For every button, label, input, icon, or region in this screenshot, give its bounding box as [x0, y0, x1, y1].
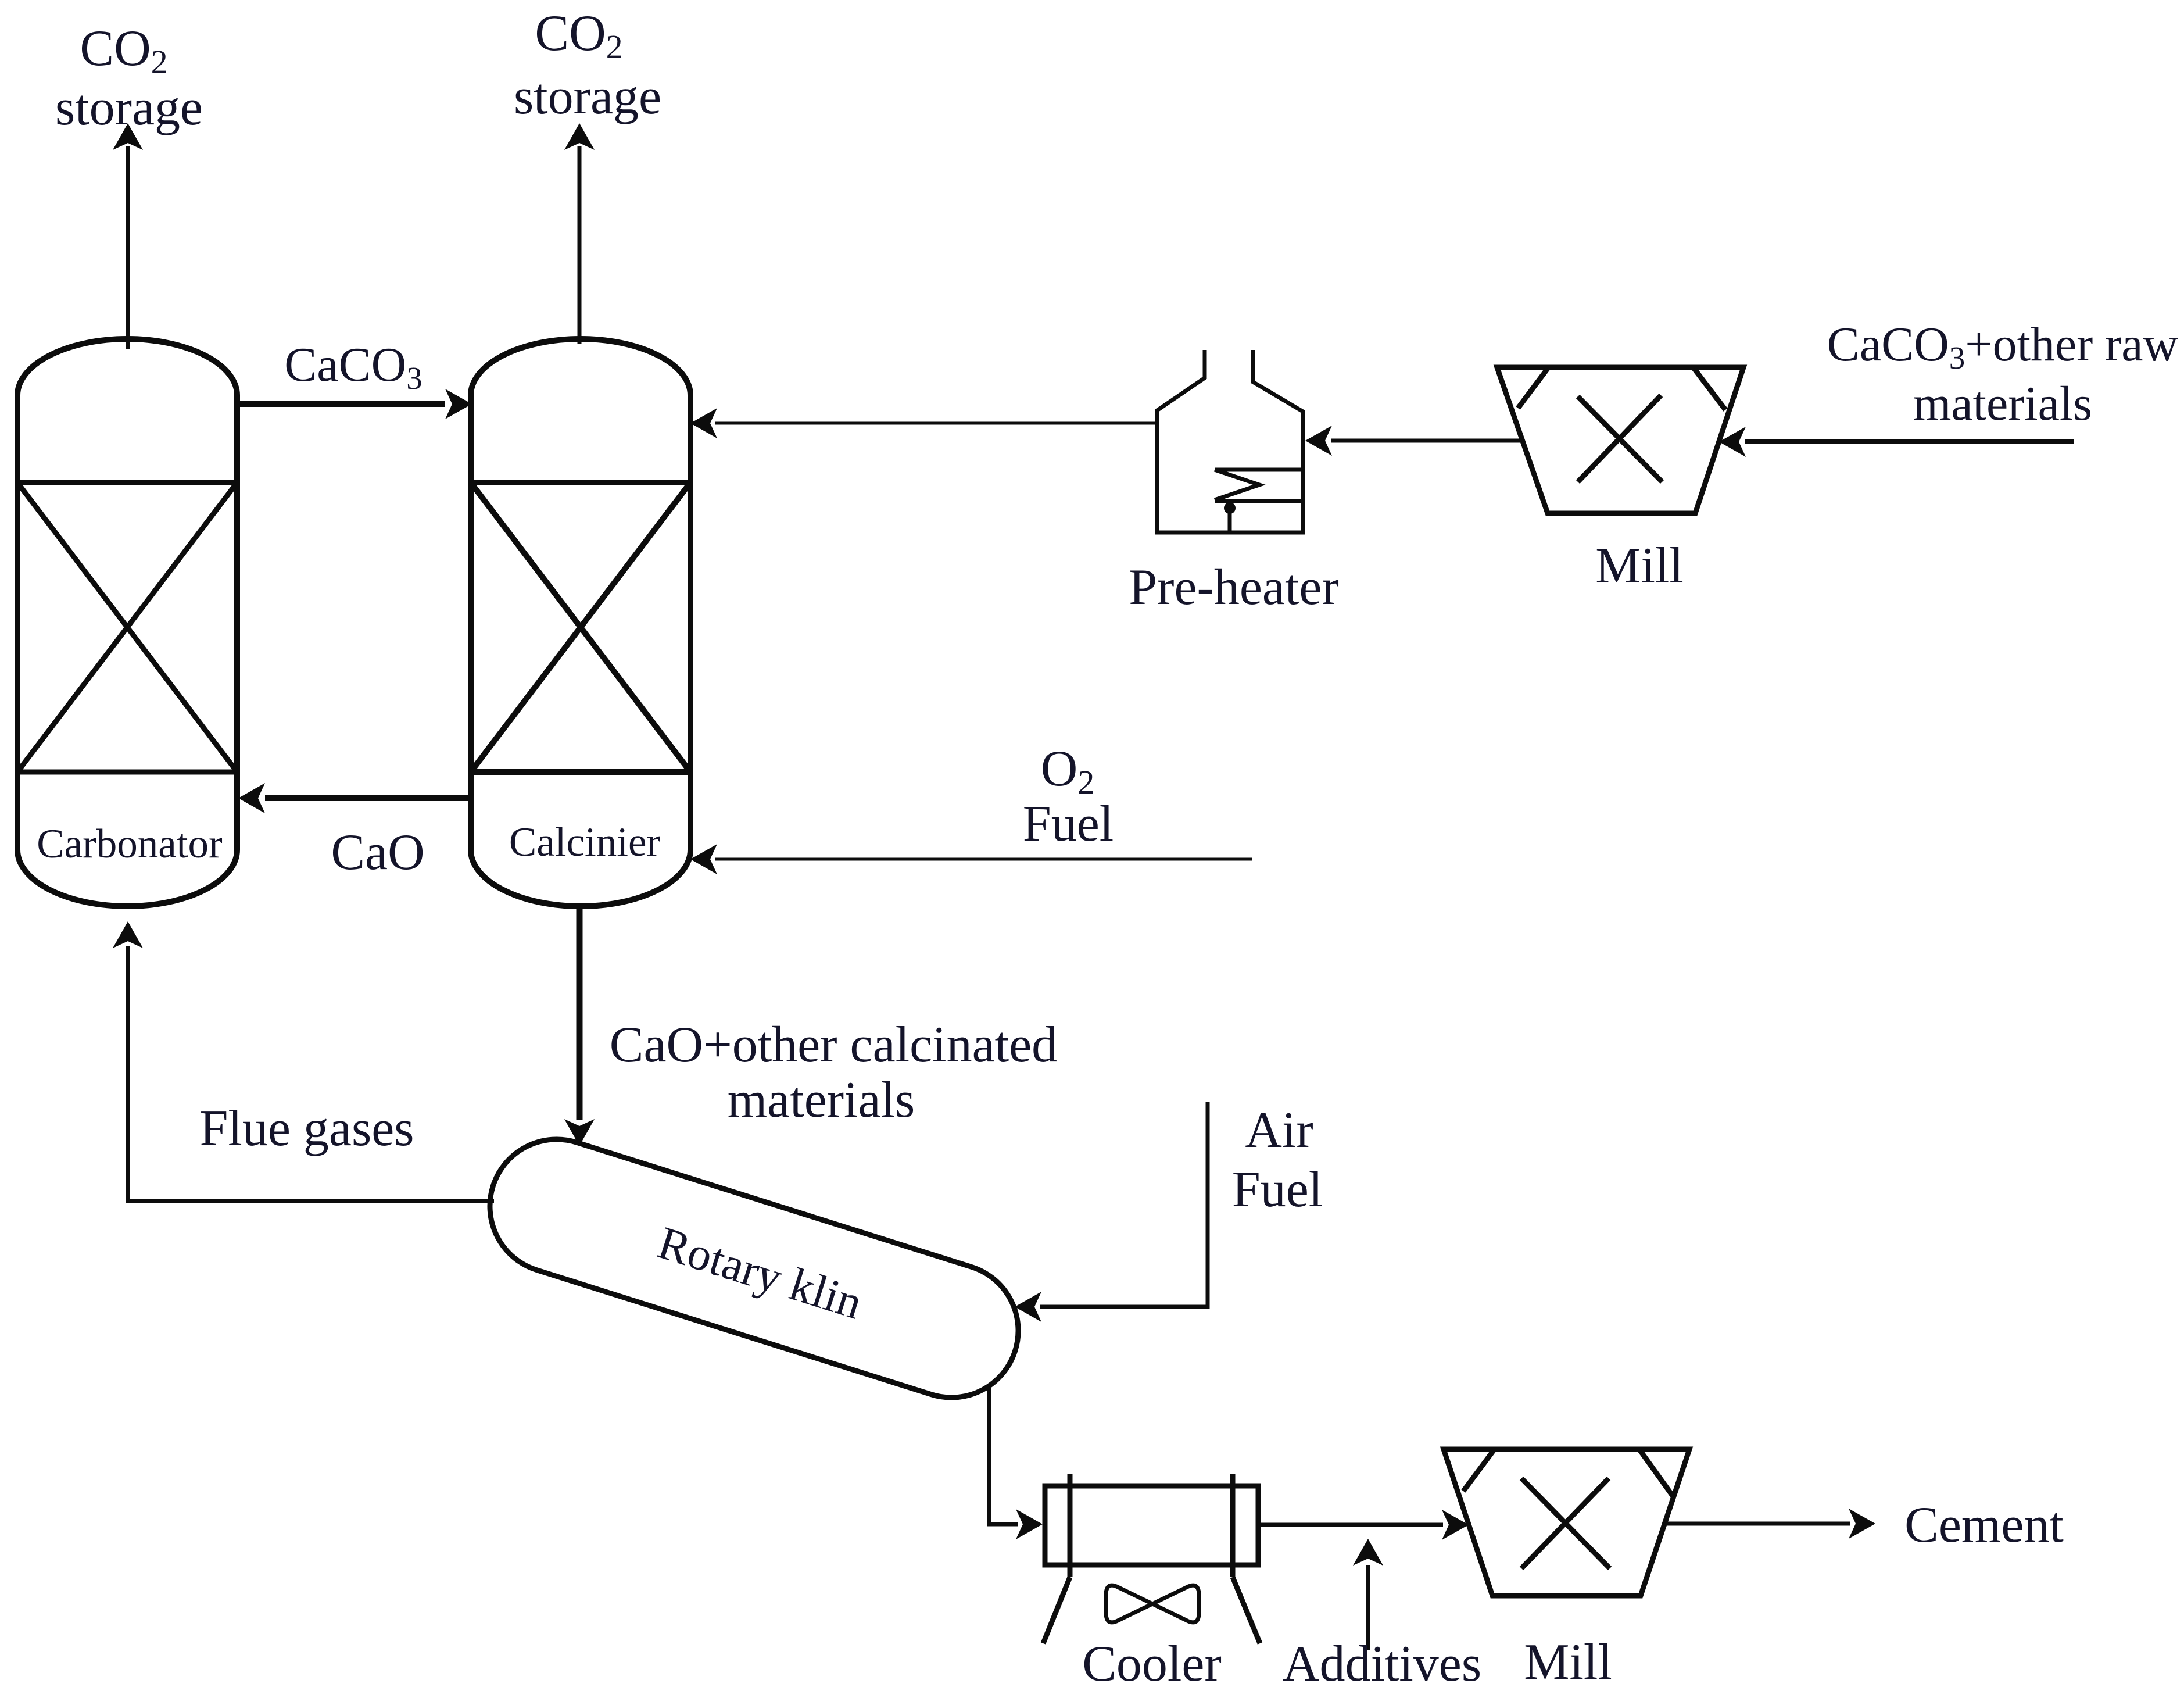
wire Flue gases (kiln to Carbonator): [113, 921, 494, 1201]
svg-text:Air: Air: [1245, 1102, 1313, 1159]
mill (bottom) X: [1521, 1478, 1610, 1568]
pre-heater heat exchanger coil: [1215, 470, 1303, 532]
label CaO+other calcinated materials: [610, 1017, 1057, 1128]
rotary kiln body: [473, 1123, 1036, 1415]
mill (bottom) trapezoid: [1444, 1449, 1689, 1596]
mill (top) trapezoid: [1497, 367, 1743, 513]
label CaCO3: [284, 338, 423, 396]
label Flue gases: [199, 1100, 414, 1157]
wire raw materials to Mill: [1719, 427, 2074, 457]
svg-text:Pre-heater: Pre-heater: [1129, 559, 1339, 616]
pre-heater body: [1157, 350, 1303, 532]
svg-text:Cooler: Cooler: [1082, 1636, 1222, 1687]
svg-text:CaO+other calcinated: CaO+other calcinated: [610, 1017, 1057, 1073]
svg-text:CaO: CaO: [331, 824, 424, 881]
label CO2 storage (right): [514, 5, 661, 125]
cooler shell: [1045, 1486, 1258, 1565]
wire Air Fuel to kiln: [1015, 1102, 1208, 1322]
label Pre-heater: [1129, 559, 1339, 616]
cooler tube sheets: [1070, 1474, 1233, 1577]
svg-text:Rotary klin: Rotary klin: [652, 1217, 868, 1329]
wire Additives into line: [1353, 1539, 1383, 1650]
svg-text:Fuel: Fuel: [1232, 1161, 1323, 1218]
svg-text:materials: materials: [728, 1072, 915, 1128]
svg-text:Flue gases: Flue gases: [199, 1100, 414, 1157]
label Mill (top): [1595, 538, 1684, 594]
label Fuel (O2 Fuel): [1023, 796, 1114, 852]
wire Cooler to Mill (bottom): [1258, 1510, 1469, 1540]
svg-text:storage: storage: [55, 80, 203, 136]
mill (top) corner rollers: [1518, 369, 1725, 410]
svg-text:CaCO3: CaCO3: [284, 338, 423, 396]
wire Pre-heater to Calcinier: [690, 408, 1157, 438]
mill (bottom) corner rollers: [1463, 1450, 1673, 1496]
wire CO2 storage from Carbonator: [113, 123, 143, 349]
label Fuel (Air Fuel): [1232, 1161, 1323, 1218]
label Additives: [1283, 1636, 1481, 1687]
label Carbonator: [37, 821, 223, 867]
svg-text:CO2: CO2: [80, 20, 167, 81]
wire O2 Fuel to Calcinier: [690, 844, 1252, 874]
wire Mill to Pre-heater: [1305, 426, 1523, 456]
svg-text:O2: O2: [1041, 741, 1095, 801]
svg-text:Carbonator: Carbonator: [37, 821, 223, 867]
wire Cement output: [1664, 1509, 1875, 1539]
cooler legs: [1043, 1577, 1260, 1643]
wire kiln to Cooler: [989, 1384, 1043, 1539]
label CaO: [331, 824, 424, 881]
svg-text:Additives: Additives: [1283, 1636, 1481, 1687]
wire CaCO3 Carbonator to Calcinier: [238, 389, 472, 419]
svg-text:Mill: Mill: [1524, 1634, 1612, 1687]
label Cement: [1904, 1497, 2064, 1553]
svg-text:Fuel: Fuel: [1023, 796, 1114, 852]
label Cooler: [1082, 1636, 1222, 1687]
packing section Calcinier (X crossing): [471, 482, 690, 772]
svg-text:Calcinier: Calcinier: [509, 820, 661, 865]
vessel Calcinier: [471, 339, 690, 906]
label O2: [1041, 741, 1095, 801]
svg-text:CaCO3+other raw: CaCO3+other raw: [1827, 317, 2179, 376]
svg-text:CO2: CO2: [535, 5, 622, 66]
wire Calcinier to Rotary klin (CaO + other calcinated materials): [564, 908, 595, 1146]
label Calcinier: [509, 820, 661, 865]
wire CO2 storage from Calcinier: [564, 123, 595, 344]
svg-text:Cement: Cement: [1904, 1497, 2064, 1553]
label CaCO3+other raw materials: [1827, 317, 2179, 431]
cooler fan: [1106, 1585, 1199, 1622]
label Mill (bottom): [1524, 1634, 1612, 1687]
vessel Carbonator: [17, 339, 237, 906]
svg-text:materials: materials: [1913, 377, 2092, 431]
label Rotary klin: [652, 1217, 868, 1329]
svg-text:Mill: Mill: [1595, 538, 1684, 594]
label Air: [1245, 1102, 1313, 1159]
wire CaO Calcinier to Carbonator: [238, 783, 468, 813]
svg-text:storage: storage: [514, 69, 661, 125]
mill (top) X: [1578, 395, 1662, 482]
packing section Carbonator (X crossing): [17, 482, 237, 772]
label CO2 storage (left): [55, 20, 203, 136]
